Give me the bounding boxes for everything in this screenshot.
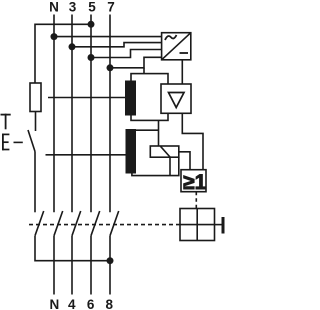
- wire relay element to box B bottom: [169, 157, 171, 175]
- pole conductor 5 upper: [90, 15, 92, 213]
- wire to relay box A top: [143, 68, 145, 74]
- node 3 tap: [69, 43, 76, 50]
- pole conductor N upper: [53, 15, 55, 213]
- wire test return: [35, 236, 110, 261]
- mechanical linkage (dashed): [29, 224, 180, 226]
- wire relay element to OR gate: [179, 152, 190, 170]
- main contact blade 6: [91, 211, 100, 236]
- wire test branch top: [35, 24, 91, 83]
- svg-text:N: N: [50, 297, 60, 310]
- svg-text:N: N: [49, 0, 59, 15]
- linkage OR gate to trip unit (dashed): [195, 192, 197, 209]
- wire N to rectifier: [54, 36, 162, 38]
- wire to coil bar 2: [46, 154, 126, 156]
- wire 5 to rectifier: [91, 50, 162, 58]
- svg-text:4: 4: [68, 297, 76, 310]
- relay release element: [150, 146, 179, 157]
- pole conductor 8 lower: [109, 236, 111, 295]
- anchor bar: [222, 217, 225, 234]
- node 5 tap: [88, 54, 95, 61]
- svg-text:6: 6: [87, 297, 95, 310]
- winding box B: [132, 130, 179, 175]
- pole conductor 6 lower: [90, 236, 92, 295]
- trip unit: [180, 209, 215, 241]
- svg-text:≥1: ≥1: [183, 171, 207, 194]
- main contact blade N: [54, 211, 63, 236]
- svg-text:8: 8: [106, 297, 114, 310]
- node on line 5 top: [88, 21, 95, 28]
- svg-text:7: 7: [107, 0, 115, 15]
- node on line 8: [107, 257, 114, 264]
- main contact blade 4: [72, 211, 81, 236]
- amplifier box (triangle): [161, 84, 191, 113]
- relay box A: [131, 74, 168, 121]
- coil bar 1: [125, 81, 136, 116]
- test button contact blade: [28, 130, 35, 152]
- wire trip unit anchor: [215, 224, 223, 226]
- label T: [1, 114, 11, 116]
- pole conductor 7 upper: [109, 15, 111, 213]
- wire test contact down: [34, 152, 36, 213]
- wire amplifier to OR gate: [182, 113, 203, 169]
- wire to coil bar 1: [48, 97, 125, 99]
- rectifier U1: [162, 33, 191, 60]
- node N tap: [51, 33, 58, 40]
- test resistor: [30, 83, 41, 112]
- label E: [2, 134, 4, 151]
- wire resistor to test contact: [35, 112, 37, 132]
- svg-text:5: 5: [88, 0, 96, 15]
- pole conductor 3 upper: [71, 15, 73, 213]
- test circuit contact blade: [35, 211, 44, 236]
- linkage E to blade: [14, 141, 23, 143]
- pole conductor 4 lower: [71, 236, 73, 295]
- wire rectifier to amplifier: [181, 60, 183, 84]
- wire 7 to rectifier: [110, 57, 162, 68]
- coil bar 2: [126, 129, 137, 174]
- pole conductor N lower: [53, 236, 55, 295]
- main contact blade 8: [110, 211, 119, 236]
- wire box A to relay element: [158, 120, 160, 146]
- wire 3 to rectifier: [72, 43, 162, 47]
- node 7 tap: [107, 64, 114, 71]
- svg-text:3: 3: [69, 0, 77, 15]
- OR gate: [181, 170, 207, 194]
